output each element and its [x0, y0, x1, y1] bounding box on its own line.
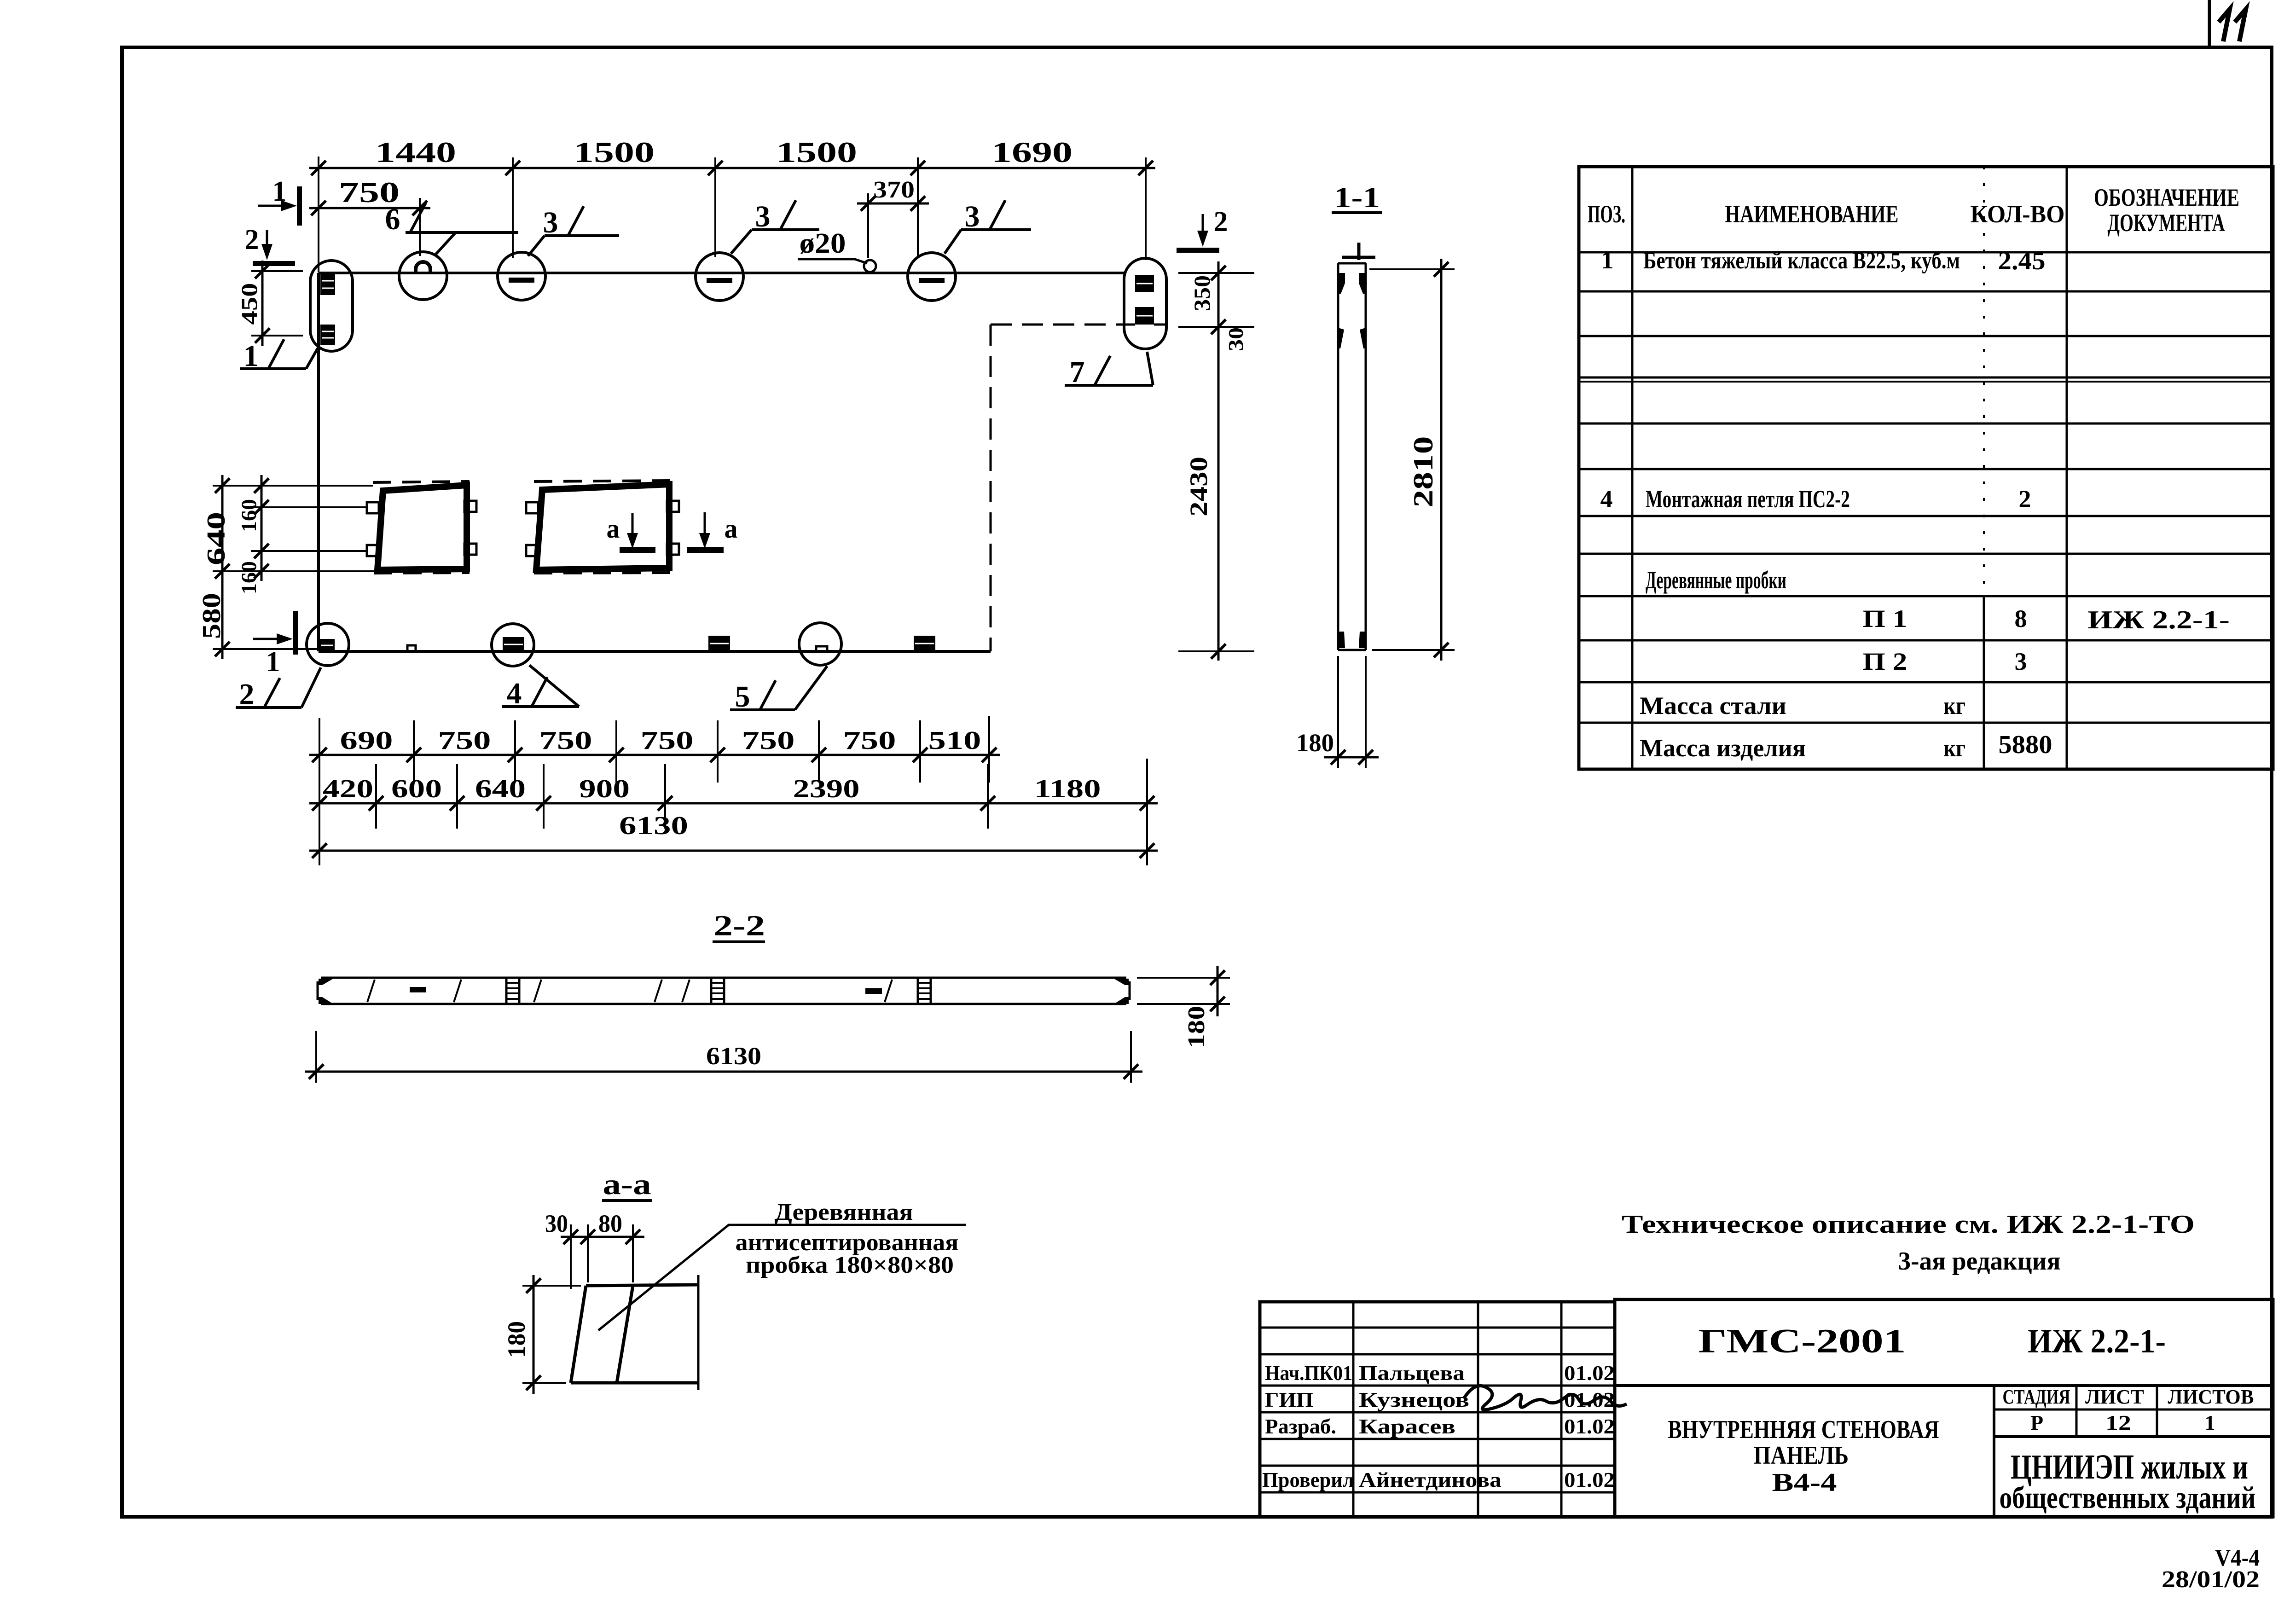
2-2 plug hatch 2: [711, 978, 724, 1004]
svg-text:1-1: 1-1: [1334, 181, 1380, 214]
a-a leader line: [598, 1225, 966, 1330]
svg-text:Разраб.: Разраб.: [1265, 1415, 1336, 1438]
svg-text:ПОЗ.: ПОЗ.: [1588, 200, 1625, 228]
callout label 3/ to circle c: [945, 200, 1031, 254]
callout circle 6: lifting loop: [399, 252, 447, 300]
opening 1 (quad with tabs): [367, 481, 476, 573]
a-a dim 180: [503, 1275, 581, 1394]
svg-text:750: 750: [539, 726, 592, 755]
extension lines left: [213, 485, 373, 487]
small tab square: [407, 645, 416, 651]
svg-text:2390: 2390: [793, 775, 860, 803]
dim 180 below 1-1: [1296, 656, 1379, 768]
svg-text:Кузнецов: Кузнецов: [1359, 1388, 1469, 1411]
svg-text:Бетон тяжелый класса В22.5, ку: Бетон тяжелый класса В22.5, куб.м: [1643, 248, 1960, 274]
callout label 4/ to circle 4: [502, 665, 579, 710]
plug dash mark a: [509, 278, 534, 283]
dim chain 690 750x5 510: [309, 726, 1000, 762]
2-2 plug hatch 3: [918, 978, 931, 1004]
svg-text:2810: 2810: [1408, 436, 1438, 508]
dim 6130 overall: [309, 812, 1158, 858]
svg-text:ø20: ø20: [800, 228, 846, 259]
dim chain 420 600 640 900 2390 1180: [309, 775, 1158, 811]
svg-text:П 1: П 1: [1863, 605, 1907, 632]
right end hatch top: [1135, 275, 1154, 292]
svg-text:2-2: 2-2: [713, 909, 765, 942]
svg-text:Монтажная петля ПС2-2: Монтажная петля ПС2-2: [1646, 485, 1850, 513]
section mark a-a left: [607, 513, 656, 553]
svg-text:1690: 1690: [991, 136, 1073, 168]
dim 450 left: [236, 261, 303, 346]
svg-text:Р: Р: [2030, 1411, 2043, 1434]
svg-text:2: 2: [2019, 485, 2031, 513]
hidden edge horizontal (dashed): [991, 324, 1126, 326]
callout circle 3c: plug mark: [908, 253, 956, 301]
2-2 corner marks right: [1114, 979, 1129, 985]
svg-text:180: 180: [503, 1321, 530, 1358]
svg-text:Масса стали: Масса стали: [1640, 692, 1786, 719]
bottom extension lines: [319, 718, 320, 865]
1-1 lifting loop T: [1357, 243, 1361, 260]
svg-text:ДОКУМЕНТА: ДОКУМЕНТА: [2108, 209, 2225, 237]
svg-text:160: 160: [237, 499, 261, 532]
svg-text:01.02: 01.02: [1564, 1361, 1615, 1385]
2-2 plug hatch 1: [506, 978, 519, 1004]
svg-text:750: 750: [843, 726, 896, 755]
plug dash mark b: [707, 278, 732, 283]
a-a plug right slant edge: [617, 1286, 633, 1383]
hidden edge vertical (dashed): [990, 325, 992, 651]
svg-text:1: 1: [272, 176, 287, 207]
extension lines top: [318, 157, 319, 273]
svg-text:а-а: а-а: [603, 1168, 651, 1201]
bottom circle node 2: [307, 623, 349, 666]
svg-text:450: 450: [236, 283, 262, 325]
bottom plug hatch 1: [319, 639, 335, 651]
svg-text:750: 750: [339, 176, 400, 209]
svg-text:180: 180: [1296, 729, 1334, 757]
svg-text:Масса изделия: Масса изделия: [1640, 734, 1806, 762]
bottom plug hatch 3: [708, 636, 730, 651]
bottom plug hatch 2: [503, 637, 524, 651]
svg-text:580: 580: [197, 593, 226, 639]
section 2-2 strip outline: [318, 978, 1130, 1004]
a-a concrete right vertical: [697, 1275, 700, 1390]
svg-text:8: 8: [2015, 605, 2027, 632]
section 2-2 label: [713, 909, 765, 942]
svg-text:НАИМЕНОВАНИЕ: НАИМЕНОВАНИЕ: [1725, 200, 1899, 228]
opening 2 (quad with tabs): [526, 481, 679, 573]
svg-text:80: 80: [598, 1210, 622, 1237]
dim 6130 below 2-2: [305, 1031, 1142, 1083]
svg-text:1180: 1180: [1034, 775, 1101, 803]
svg-text:6130: 6130: [619, 812, 688, 840]
dim chain 640/580: [197, 475, 231, 659]
svg-text:П 2: П 2: [1863, 648, 1907, 675]
panel top edge: [319, 272, 1126, 274]
specification table grid: [1579, 167, 2273, 769]
svg-text:Нач.ПК01: Нач.ПК01: [1265, 1361, 1352, 1385]
svg-text:2: 2: [1214, 206, 1228, 238]
svg-text:600: 600: [391, 775, 442, 803]
svg-text:510: 510: [928, 726, 981, 755]
svg-text:2: 2: [245, 224, 259, 255]
svg-text:КОЛ-ВО: КОЛ-ВО: [1971, 200, 2065, 228]
callout label 6/ to loop circle: [385, 203, 519, 254]
svg-text:1: 1: [2205, 1411, 2215, 1434]
panel bottom edge: [319, 650, 991, 653]
svg-text:1500: 1500: [574, 136, 655, 168]
svg-text:750: 750: [742, 726, 795, 755]
dim chain A: 1440 1500 1500 1690: [309, 136, 1155, 175]
svg-text:a: a: [607, 514, 620, 544]
dim 370: [857, 177, 929, 211]
section cut 1 top: [258, 176, 302, 226]
svg-text:ИЖ 2.2-1-: ИЖ 2.2-1-: [2028, 1322, 2166, 1360]
2-2 small dash marks: [410, 987, 426, 992]
svg-text:5880: 5880: [1999, 731, 2052, 759]
2-2 corner marks left: [319, 979, 333, 985]
svg-text:12: 12: [2105, 1411, 2131, 1434]
a-a concrete bottom line: [571, 1381, 698, 1385]
1-1 black marks bottom: [1338, 632, 1345, 648]
callout circle 3a: plug mark: [498, 252, 545, 300]
svg-text:пробка 180×80×80: пробка 180×80×80: [746, 1252, 954, 1278]
callout label 3/ to circle b: [731, 200, 819, 254]
svg-text:30: 30: [545, 1210, 568, 1237]
tick above frame top right: [2208, 0, 2211, 47]
leader for d20: [798, 259, 867, 263]
a-a dims 30 80: [545, 1210, 644, 1289]
svg-text:1500: 1500: [776, 136, 857, 168]
a-a plug left slant edge: [571, 1286, 586, 1383]
handwritten page number 11: [2219, 9, 2246, 41]
svg-text:370: 370: [873, 177, 915, 203]
dim 180 right of 2-2: [1137, 966, 1230, 1048]
callout label 2/ bottom left: [236, 667, 321, 711]
svg-text:160: 160: [237, 561, 261, 594]
svg-text:Пальцева: Пальцева: [1359, 1361, 1465, 1385]
svg-text:350: 350: [1189, 275, 1215, 311]
section cut 2 top-right: [1177, 206, 1228, 253]
bottom circle node 5: [799, 623, 841, 665]
svg-text:1440: 1440: [375, 136, 456, 168]
svg-text:2.45: 2.45: [1998, 247, 2046, 275]
svg-text:750: 750: [641, 726, 694, 755]
left end plug hatch bottom: [320, 325, 335, 345]
plug dash mark c: [919, 278, 945, 283]
svg-text:a: a: [725, 514, 738, 544]
panel left edge: [317, 273, 320, 651]
svg-text:420: 420: [323, 775, 373, 803]
dim chain 160/160: [237, 475, 269, 594]
section 1-1 bar outline: [1338, 263, 1366, 650]
svg-text:ИЖ 2.2-1-: ИЖ 2.2-1-: [2087, 606, 2230, 634]
section cut 2 top-left: [245, 224, 296, 266]
hole d20: [864, 260, 876, 272]
svg-text:28/01/02: 28/01/02: [2162, 1566, 2260, 1593]
dims right 350/30/2430: [1178, 261, 1254, 661]
svg-text:1: 1: [1601, 246, 1614, 274]
svg-text:01.02: 01.02: [1564, 1415, 1615, 1438]
right end hatch bottom: [1135, 307, 1154, 325]
svg-text:4: 4: [1600, 485, 1613, 513]
svg-text:30: 30: [1224, 327, 1247, 351]
svg-text:6130: 6130: [706, 1042, 761, 1070]
left end oval (stadium) node 1: [310, 261, 353, 351]
title block main area: [1615, 1299, 2273, 1517]
svg-text:900: 900: [579, 775, 630, 803]
svg-text:В4-4: В4-4: [1772, 1468, 1837, 1497]
svg-text:640: 640: [202, 512, 231, 565]
dim 750 top: [309, 176, 430, 215]
svg-text:ЛИСТОВ: ЛИСТОВ: [2168, 1386, 2254, 1408]
small tab in circle 5: [816, 646, 827, 651]
svg-text:ПАНЕЛЬ: ПАНЕЛЬ: [1754, 1441, 1849, 1470]
svg-text:ЛИСТ: ЛИСТ: [2085, 1386, 2144, 1408]
svg-text:3: 3: [2015, 648, 2027, 675]
svg-text:Айнетдинова: Айнетдинова: [1359, 1468, 1502, 1491]
svg-text:Деревянная: Деревянная: [775, 1199, 913, 1225]
lifting loop symbol: [416, 262, 430, 273]
svg-text:01.02: 01.02: [1564, 1468, 1615, 1491]
svg-text:1: 1: [266, 646, 280, 678]
dim 2810: [1369, 259, 1455, 661]
svg-text:СТАДИЯ: СТАДИЯ: [2003, 1386, 2070, 1408]
section mark a-a right: [687, 512, 738, 553]
signature scribble: [1464, 1386, 1627, 1409]
svg-text:Проверил: Проверил: [1262, 1468, 1354, 1491]
svg-text:ОБОЗНАЧЕНИЕ: ОБОЗНАЧЕНИЕ: [2094, 184, 2239, 211]
svg-text:750: 750: [438, 726, 491, 755]
left end plug hatch top: [320, 274, 335, 295]
2-2 joint marks: [367, 980, 375, 1002]
svg-text:Техническое описание см. ИЖ 2: Техническое описание см. ИЖ 2.2-1-ТО: [1622, 1210, 2195, 1239]
svg-text:общественных зданий: общественных зданий: [2000, 1480, 2256, 1515]
right end oval (stadium) node 7: [1124, 258, 1166, 349]
svg-text:690: 690: [340, 726, 393, 755]
callout label 1/ to left end: [240, 339, 318, 373]
svg-text:ВНУТРЕННЯЯ СТЕНОВАЯ: ВНУТРЕННЯЯ СТЕНОВАЯ: [1668, 1415, 1939, 1444]
section 1-1 label: [1332, 181, 1382, 214]
callout label 5/ to circle 5: [730, 666, 827, 713]
bottom circle node 4: [492, 624, 534, 666]
svg-text:640: 640: [475, 775, 526, 803]
a-a concrete top line: [586, 1285, 698, 1286]
detail a-a label: [602, 1168, 652, 1201]
svg-text:Деревянные пробки: Деревянные пробки: [1646, 566, 1786, 594]
svg-text:ГМС-2001: ГМС-2001: [1699, 1322, 1906, 1360]
bottom plug hatch 4: [914, 636, 935, 651]
1-1 black marks middle: [1338, 328, 1344, 348]
section cut 1 bottom: [253, 611, 298, 678]
svg-text:кг: кг: [1943, 692, 1965, 719]
svg-text:ГИП: ГИП: [1265, 1388, 1313, 1411]
callout label 7/ to right end: [1065, 352, 1153, 389]
svg-text:180: 180: [1183, 1006, 1210, 1048]
svg-text:3-ая редакция: 3-ая редакция: [1898, 1247, 2061, 1276]
callout circle 3b: plug mark: [696, 253, 743, 301]
title block personnel table: [1260, 1302, 1615, 1517]
callout label 3/ to circle a: [528, 206, 619, 256]
svg-text:Карасев: Карасев: [1359, 1415, 1455, 1438]
svg-text:кг: кг: [1943, 734, 1965, 762]
svg-text:2430: 2430: [1185, 457, 1212, 516]
1-1 black marks top: [1338, 273, 1345, 294]
